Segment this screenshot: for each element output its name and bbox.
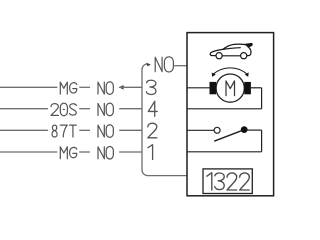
label NO row 1 <box>98 82 113 95</box>
wire dash row 1 <box>79 86 90 88</box>
node NO connector label <box>155 57 173 72</box>
arrowhead row 1 <box>119 85 124 90</box>
pin 3 <box>146 80 156 94</box>
wire row 4 left lead <box>0 151 57 153</box>
label MG row 4 <box>60 147 76 159</box>
component number 1322 <box>207 173 250 190</box>
wire right rail down motor loop <box>261 88 263 109</box>
label 20S row 2 <box>51 103 76 116</box>
wire dash row 4 <box>79 151 90 153</box>
wire dash row 2 <box>79 108 90 110</box>
wire row 4 stub to connector <box>119 151 142 153</box>
switch fixed contact circle <box>214 127 220 133</box>
pin 2 <box>148 123 157 138</box>
car icon <box>210 44 252 59</box>
motor brush right <box>244 82 251 94</box>
wire row 1 left lead <box>0 86 57 88</box>
wire switch loop return to pin 1 <box>187 151 262 153</box>
connector bracket <box>142 64 187 176</box>
pin 4 <box>148 101 157 116</box>
wire row 2 left lead <box>0 108 48 110</box>
wire row 3 left lead <box>0 129 48 131</box>
component number box <box>203 169 252 194</box>
wire row 1 stub to connector <box>119 86 142 88</box>
component box 1322 outline <box>187 33 274 196</box>
label 87T row 3 <box>52 125 76 137</box>
wire pin3 to motor <box>187 87 210 89</box>
wire switch to right rail <box>247 129 262 131</box>
motor brush left <box>210 82 217 94</box>
motor label M <box>226 81 235 96</box>
wire pin 2 to switch <box>187 129 214 131</box>
motor rotation arc arrow <box>213 68 247 74</box>
switch pivot dot <box>241 126 248 133</box>
wire row 2 stub to connector <box>119 108 142 110</box>
wire NO to component box <box>174 65 187 67</box>
switch lever <box>214 130 244 141</box>
label NO row 2 <box>98 103 113 116</box>
wire right rail down switch loop <box>261 130 263 152</box>
wire dash row 3 <box>79 129 90 131</box>
pin 1 <box>148 145 153 160</box>
connector hook arrowhead <box>147 63 151 67</box>
label NO row 3 <box>98 125 113 138</box>
label NO row 4 <box>98 146 113 159</box>
wire row 3 stub to connector <box>119 129 142 131</box>
wire motor loop return to pin 4 <box>187 108 262 110</box>
wire motor to right rail <box>251 87 262 89</box>
label MG row 1 <box>60 82 76 94</box>
motor M1 circle <box>216 74 244 102</box>
